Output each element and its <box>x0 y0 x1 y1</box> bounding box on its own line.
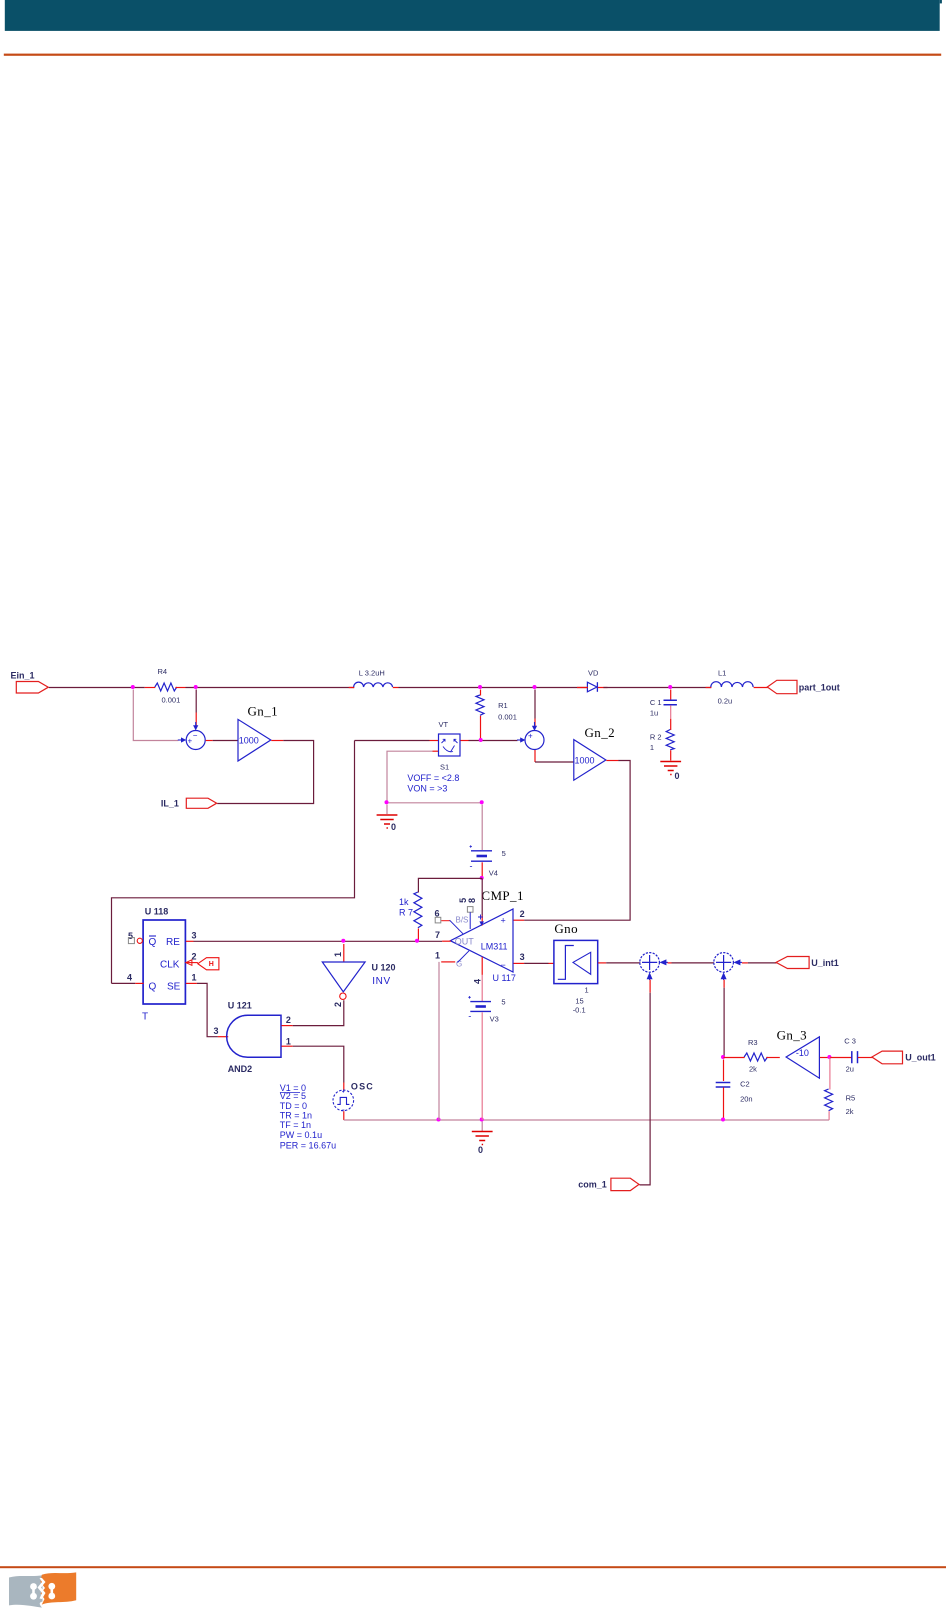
pin 1 G stub and wire down <box>435 951 469 1121</box>
resistor R4 <box>145 667 186 705</box>
OSC parameter text <box>280 1083 336 1150</box>
svg-text:TR = 1n: TR = 1n <box>280 1111 312 1121</box>
capacitor C1 <box>650 690 677 719</box>
battery V3 (5V) <box>468 996 505 1120</box>
port com_1 <box>578 1178 639 1190</box>
svg-text:1: 1 <box>333 952 343 957</box>
svg-text:3: 3 <box>192 931 197 941</box>
inductor L <box>349 669 399 688</box>
footer logo <box>9 1572 76 1607</box>
battery V4 (5V) <box>470 805 506 879</box>
arrow into summer2 left <box>517 739 521 741</box>
svg-text:3: 3 <box>214 1026 219 1036</box>
svg-text:OUT: OUT <box>455 937 475 947</box>
svg-text:8: 8 <box>467 898 477 903</box>
wire summer1 to Gn_1 <box>206 740 213 742</box>
svg-text:PW = 0.1u: PW = 0.1u <box>280 1130 322 1140</box>
svg-text:S1: S1 <box>440 763 449 772</box>
svg-text:−: − <box>501 960 506 970</box>
svg-text:7: 7 <box>435 930 440 940</box>
svg-text:U_out1: U_out1 <box>905 1053 936 1063</box>
ground 0 on rail <box>472 1122 493 1156</box>
wire OSC bottom to ground rail <box>343 1111 345 1120</box>
svg-text:PER = 16.67u: PER = 16.67u <box>280 1140 336 1150</box>
summer B <box>714 953 734 973</box>
node junction C1 top <box>668 685 672 689</box>
arrow into summer1 left <box>178 739 183 741</box>
wire Ein_1 to R4 <box>49 687 145 689</box>
pin 7 output stub <box>435 930 451 941</box>
wire junction 195.7 down to summer1 top <box>195 690 197 713</box>
svg-text:0: 0 <box>391 822 396 832</box>
arrow into summerB right <box>733 959 742 965</box>
svg-text:V3: V3 <box>490 1015 499 1024</box>
wire from main line down into summer2 <box>534 690 536 719</box>
svg-text:Ein_1: Ein_1 <box>11 671 35 681</box>
svg-text:CLK: CLK <box>160 960 180 971</box>
svg-text:5: 5 <box>502 849 506 858</box>
svg-text:LM311: LM311 <box>481 942 508 952</box>
svg-text:C2: C2 <box>740 1080 750 1089</box>
svg-text:OSC: OSC <box>351 1082 374 1092</box>
svg-text:TF = 1n: TF = 1n <box>280 1120 311 1130</box>
svg-text:VT: VT <box>439 720 449 729</box>
svg-text:U_int1: U_int1 <box>811 958 839 968</box>
svg-text:CMP_1: CMP_1 <box>481 888 523 903</box>
svg-text:0: 0 <box>478 1145 483 1155</box>
svg-text:0.001: 0.001 <box>498 713 517 722</box>
svg-text:U 117: U 117 <box>493 973 516 983</box>
svg-text:1000: 1000 <box>239 736 259 746</box>
wire VT control left pin <box>355 740 430 742</box>
svg-text:R1: R1 <box>498 701 508 710</box>
capacitor C3 <box>830 1037 873 1074</box>
pin 2 CLK with HI symbol <box>186 952 219 970</box>
wire feedback vertical from Q output up to VT control <box>112 741 355 984</box>
svg-text:1: 1 <box>192 973 197 983</box>
svg-text:-0.1: -0.1 <box>573 1006 586 1015</box>
svg-text:0.001: 0.001 <box>162 696 181 705</box>
svg-text:1k: 1k <box>399 897 409 907</box>
pin 1 SE stub and wire to AND2 output <box>186 973 228 1037</box>
wire VT output to current summer <box>461 740 469 742</box>
wire AND2 pin1 to OSC <box>282 1046 344 1090</box>
wire RE to comparator out (long net) <box>194 940 443 942</box>
summer U1 (IL error) <box>186 731 205 750</box>
wire bottom ground rail <box>344 1119 829 1121</box>
svg-text:3: 3 <box>520 952 525 962</box>
node junction rail/V3 <box>480 1118 484 1122</box>
port Ein_1 <box>11 671 49 694</box>
svg-text:15: 15 <box>575 997 583 1006</box>
svg-text:R3: R3 <box>748 1038 758 1047</box>
svg-text:2u: 2u <box>846 1065 854 1074</box>
svg-text:Gno: Gno <box>554 921 578 936</box>
svg-text:VOFF = <2.8: VOFF = <2.8 <box>407 773 459 783</box>
wire VT lower-left pin to ground loop <box>433 750 440 752</box>
pin 4 V- stub down <box>473 957 483 1002</box>
svg-text:4: 4 <box>127 973 132 983</box>
amplifier Gn_1 <box>238 704 278 762</box>
wire Gno to summerA <box>598 962 606 964</box>
svg-text:U 121: U 121 <box>228 1001 252 1011</box>
summer A <box>640 953 660 973</box>
svg-text:L1: L1 <box>718 669 726 678</box>
svg-text:1: 1 <box>435 951 440 961</box>
svg-text:Q: Q <box>149 982 157 993</box>
node junction R1 top <box>478 685 482 689</box>
resistor R7 (1k pullup) <box>399 892 422 941</box>
svg-text:0.2u: 0.2u <box>718 697 733 706</box>
wire summerB to U_int1 <box>742 962 748 964</box>
svg-text:AND2: AND2 <box>228 1064 253 1074</box>
node junction C2 bottom rail <box>721 1118 725 1122</box>
svg-text:2k: 2k <box>749 1065 757 1074</box>
node junction R7 bottom <box>415 939 419 943</box>
pin 8 V+ vertical from V4 <box>478 878 484 926</box>
wire V4 bottom to R7 <box>418 878 482 892</box>
diode VD <box>577 669 608 692</box>
pin 6 balance square <box>435 909 464 934</box>
header orange rule <box>4 54 941 56</box>
svg-text:C 3: C 3 <box>844 1037 856 1046</box>
arrow into summerA right <box>659 959 668 965</box>
pin 2 +input stub <box>514 909 525 920</box>
capacitor C2 <box>716 1060 753 1121</box>
svg-text:Q: Q <box>149 937 157 948</box>
svg-text:RE: RE <box>166 937 180 948</box>
wire Gn_2 out down to comparator pin2 <box>606 760 618 762</box>
svg-text:VD: VD <box>588 669 599 678</box>
svg-text:2: 2 <box>192 952 197 962</box>
port U_out1 <box>872 1051 936 1064</box>
arrow into summerB bottom <box>721 972 727 980</box>
gate U121 AND2 (mirrored) <box>214 1001 291 1075</box>
svg-text:2: 2 <box>286 1015 291 1025</box>
ground 0 under R2 <box>660 762 681 782</box>
node junction left of R4 <box>131 685 135 689</box>
svg-text:2k: 2k <box>846 1107 854 1116</box>
amplifier Gn_3 (mirrored, -10) <box>777 1028 820 1079</box>
svg-text:L 3.2uH: L 3.2uH <box>359 669 385 678</box>
resistor R3 <box>724 1038 780 1074</box>
node junction at 481.7,802.3 <box>480 800 484 804</box>
footer orange rule <box>0 1566 946 1568</box>
wire summerA to summerB <box>668 962 672 964</box>
wire summerA bottom to com_1 <box>649 980 651 993</box>
svg-text:1: 1 <box>585 986 589 995</box>
svg-text:R 7: R 7 <box>399 908 413 918</box>
node junction R3/C2 <box>721 1055 725 1059</box>
pin 4 Q stub <box>112 973 144 984</box>
pin 3 RE stub <box>186 931 197 942</box>
wire AND2 pin2 to INV output <box>282 1000 344 1025</box>
svg-text:-10: -10 <box>796 1048 809 1058</box>
svg-text:R 2: R 2 <box>650 733 662 742</box>
svg-text:1u: 1u <box>650 709 658 718</box>
pin 5 balance square <box>458 898 473 929</box>
resistor R5 <box>825 1058 856 1121</box>
comparator U117 LM311 (mirrored) <box>450 909 516 983</box>
block Gno (limiter) <box>554 921 598 1015</box>
arrow into summerA bottom <box>647 972 653 980</box>
svg-text:−: − <box>193 731 198 740</box>
wire R4 to L <box>186 687 355 689</box>
wire Gn_3 right to C3 node <box>820 1057 830 1059</box>
svg-text:0: 0 <box>675 771 680 781</box>
svg-text:+: + <box>528 732 533 741</box>
amplifier Gn_2 <box>574 725 615 780</box>
svg-text:20n: 20n <box>740 1095 753 1104</box>
svg-text:1000: 1000 <box>575 756 595 766</box>
svg-text:5: 5 <box>501 998 505 1007</box>
port U_int1 <box>776 957 839 969</box>
summer U2 (current sense) <box>525 731 544 750</box>
svg-text:U 118: U 118 <box>145 907 169 917</box>
resistor R1 <box>476 690 517 741</box>
svg-text:TD = 0: TD = 0 <box>280 1101 307 1111</box>
pin 5 Q-bar bubble <box>128 931 142 944</box>
wire L to VD <box>399 687 588 689</box>
node junction Gn_3 in <box>827 1055 831 1059</box>
node junction V4 bottom <box>480 876 484 880</box>
svg-text:R5: R5 <box>846 1094 856 1103</box>
svg-text:4: 4 <box>473 979 483 984</box>
wire junction 132.8 down to summer1 <box>133 690 178 741</box>
svg-text:T: T <box>142 1012 148 1023</box>
svg-text:H: H <box>209 961 214 968</box>
pin 3 -input stub <box>514 952 525 963</box>
svg-text:com_1: com_1 <box>578 1180 607 1190</box>
svg-text:1: 1 <box>650 743 654 752</box>
inverter U120 INV <box>322 944 395 1007</box>
svg-text:+: + <box>501 916 506 926</box>
svg-text:part_1out: part_1out <box>799 683 840 693</box>
port IL_1 <box>161 798 217 808</box>
svg-text:1: 1 <box>286 1037 291 1047</box>
node junction INV input <box>341 939 345 943</box>
wire L1 to part_1out <box>754 687 768 689</box>
switch VT (S1) <box>407 720 460 794</box>
svg-text:Gn_2: Gn_2 <box>585 725 616 740</box>
wire VD to L1 <box>603 687 711 689</box>
node junction rail/comparator pin1 <box>437 1118 441 1122</box>
wire summer2 down to Gn_2 <box>534 750 536 762</box>
svg-text:Gn_1: Gn_1 <box>248 704 279 719</box>
svg-text:VON = >3: VON = >3 <box>407 784 447 794</box>
wire pin3 to Gno <box>524 962 548 964</box>
node junction above current summer <box>533 685 537 689</box>
svg-text:2: 2 <box>333 1002 343 1007</box>
port part_1out <box>767 680 840 693</box>
svg-text:SE: SE <box>167 982 181 993</box>
svg-text:R4: R4 <box>158 667 168 676</box>
wire summerB bottom down to R3 node <box>723 980 725 988</box>
wire Gn_1 out to IL_1 <box>271 740 283 742</box>
node junction right of R4 <box>194 685 198 689</box>
source OSC (pulse) <box>333 1082 374 1111</box>
ground 0 left of VT <box>377 805 398 833</box>
resistor R2 <box>650 719 674 761</box>
svg-text:V4: V4 <box>489 869 498 878</box>
svg-text:Gn_3: Gn_3 <box>777 1028 808 1043</box>
node junction R1 bottom <box>479 738 483 742</box>
flip-flop U118 <box>142 907 185 1023</box>
svg-text:C 1: C 1 <box>650 698 662 707</box>
svg-text:U 120: U 120 <box>372 963 396 973</box>
node junction at 386.5,802.3 <box>385 800 389 804</box>
svg-text:+: + <box>188 737 193 746</box>
svg-text:INV: INV <box>372 976 390 987</box>
svg-text:IL_1: IL_1 <box>161 799 179 809</box>
arrow into summer1 top <box>193 725 198 730</box>
svg-text:2: 2 <box>520 909 525 919</box>
inductor L1 <box>706 669 753 706</box>
svg-text:B/S: B/S <box>456 916 469 925</box>
header bar <box>5 0 942 31</box>
